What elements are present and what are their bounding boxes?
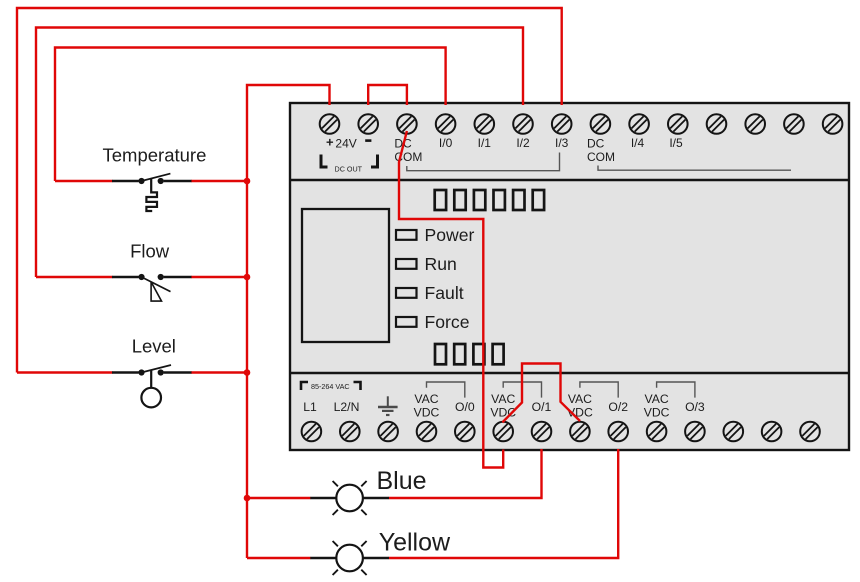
svg-text:I/3: I/3 <box>555 136 569 150</box>
Flow switch vane actuator <box>151 282 161 301</box>
Force LED <box>396 317 417 327</box>
top terminal strip divider <box>290 179 849 181</box>
wire: Level row left segment <box>17 371 113 373</box>
terminal screw O/0 <box>455 422 475 442</box>
label VAC VDC 1 <box>414 392 440 420</box>
svg-text:I/1: I/1 <box>478 136 492 150</box>
wire: Yellow lamp row left segment <box>247 557 311 559</box>
svg-text:Force: Force <box>425 312 470 332</box>
terminal screw spare input 3 <box>784 114 804 134</box>
output group bracket VAC-O/1 <box>503 382 541 398</box>
terminal screw VAC VDC 2 <box>493 422 513 442</box>
Temperature switch contact dots <box>138 178 163 184</box>
output group bracket VAC-O/0 <box>427 382 465 398</box>
label VAC VDC 4 <box>644 392 670 420</box>
svg-text:VAC: VAC <box>645 392 669 406</box>
svg-text:Power: Power <box>425 225 475 245</box>
wire: Level branch to input I/3 <box>17 8 562 373</box>
svg-text:I/0: I/0 <box>439 136 453 150</box>
svg-text:VDC: VDC <box>414 406 440 420</box>
svg-text:DC OUT: DC OUT <box>335 165 363 174</box>
Level switch leads <box>112 371 192 373</box>
wire: Temperature row right segment <box>191 180 247 182</box>
Temperature switch leads <box>112 180 192 182</box>
svg-text:Temperature: Temperature <box>103 145 207 166</box>
output status LED row (4 rectangles) <box>435 344 504 364</box>
terminal screw VAC VDC 4 <box>647 422 667 442</box>
svg-text:I/2: I/2 <box>516 136 530 150</box>
input group bracket I/0-I/3 <box>407 153 560 171</box>
Blue lamp leads <box>310 497 389 499</box>
Power LED <box>396 230 417 240</box>
wire: Blue lamp row to O/1 <box>389 449 542 498</box>
svg-text:VAC: VAC <box>414 392 438 406</box>
85-264 VAC bracket left <box>301 382 308 390</box>
Blue lamp <box>333 481 367 515</box>
LCD display window <box>302 209 389 342</box>
DC OUT bracket right <box>371 155 378 168</box>
terminal screw spare input 1 <box>707 114 727 134</box>
terminal screw DC COM 2 <box>591 114 611 134</box>
terminal screw VAC VDC 1 <box>417 422 437 442</box>
earth ground symbol <box>378 396 398 415</box>
junction node: bus at Blue lamp row <box>244 495 251 502</box>
input group bracket I/4-I/5 <box>598 166 791 171</box>
terminal screw spare output 2 <box>762 422 782 442</box>
svg-text:Flow: Flow <box>130 241 170 262</box>
output group bracket VAC-O/3 <box>657 382 695 398</box>
Level switch float <box>141 388 161 408</box>
wire: Flow row left segment <box>36 276 113 278</box>
svg-text:85-264 VAC: 85-264 VAC <box>311 382 350 391</box>
terminal screw VAC VDC 3 <box>570 422 590 442</box>
wire: minus terminal jumper to DC COM <box>368 85 407 105</box>
svg-text:Run: Run <box>425 254 457 274</box>
svg-text:VAC: VAC <box>568 392 592 406</box>
Level switch lever <box>141 365 171 373</box>
output group bracket VAC-O/2 <box>580 382 618 398</box>
svg-text:I/4: I/4 <box>631 136 645 150</box>
input status LED row (6 rectangles) <box>435 190 544 210</box>
label VAC VDC 3 <box>567 392 593 420</box>
label DC COM 1 <box>394 137 422 165</box>
terminal screw spare output 3 <box>800 422 820 442</box>
terminal screw DC COM 1 <box>397 114 417 134</box>
label DC COM 2 <box>587 137 615 165</box>
svg-text:Level: Level <box>132 336 176 357</box>
Flow switch contact dots <box>138 274 163 280</box>
junction node: bus at Temperature row <box>244 178 251 185</box>
Temperature switch thermal actuator <box>146 179 157 211</box>
svg-text:O/0: O/0 <box>455 400 475 414</box>
wire: vertical supply bus <box>246 181 248 558</box>
terminal screw I/5 <box>668 114 688 134</box>
terminal screw +24V <box>320 114 340 134</box>
85-264 VAC bracket right <box>354 382 361 390</box>
wire: DC COM return through module to VAC VDC <box>399 131 503 468</box>
label +24V <box>326 135 357 151</box>
Yellow lamp leads <box>310 557 389 559</box>
svg-text:24V: 24V <box>335 137 356 151</box>
Flow switch leads <box>112 276 192 278</box>
svg-text:Blue: Blue <box>377 467 427 495</box>
terminal screw I/2 <box>513 114 533 134</box>
svg-text:I/5: I/5 <box>669 136 683 150</box>
DC OUT bracket left <box>321 155 328 168</box>
terminal screw I/1 <box>475 114 495 134</box>
Level switch contact dots <box>138 369 163 375</box>
terminal screw earth ground <box>378 422 398 442</box>
terminal screw spare output 1 <box>724 422 744 442</box>
svg-text:DC: DC <box>587 137 605 151</box>
svg-text:COM: COM <box>587 150 615 164</box>
PLC module body <box>290 103 849 450</box>
wire: output commons jumper VAC VDC 2 to VAC VDC 3 <box>502 364 580 423</box>
wire: Flow branch to input I/2 <box>36 28 523 278</box>
Run LED <box>396 259 417 269</box>
Temperature switch lever <box>142 174 171 181</box>
svg-text:L2/N: L2/N <box>334 400 360 414</box>
wire: Flow row right segment <box>191 276 247 278</box>
bottom terminal screws: L1 <box>302 422 322 442</box>
Fault LED <box>396 288 417 298</box>
wire: Temperature branch to input I/0 <box>55 48 446 182</box>
svg-text:VDC: VDC <box>644 406 670 420</box>
terminal screw O/2 <box>608 422 628 442</box>
svg-text:+: + <box>326 135 334 150</box>
svg-text:O/3: O/3 <box>685 400 705 414</box>
terminal screw spare input 2 <box>745 114 765 134</box>
label VAC VDC 2 <box>490 392 516 420</box>
Flow switch lever <box>142 277 171 292</box>
terminal screw L2/N <box>340 422 360 442</box>
wire: Yellow lamp row to O/2 <box>389 449 618 558</box>
wire: +24V supply up-over-left to sensor bus <box>247 85 330 181</box>
terminal screw O/3 <box>685 422 705 442</box>
bottom terminal strip divider <box>290 372 849 374</box>
svg-text:Yellow: Yellow <box>379 529 451 557</box>
junction node: bus at Flow row <box>244 274 251 281</box>
junction node: bus at Level row <box>244 369 251 376</box>
terminal screw I/3 <box>552 114 572 134</box>
terminal screw minus <box>358 114 378 134</box>
label minus <box>365 139 371 142</box>
terminal screw I/0 <box>436 114 456 134</box>
wire: Blue lamp row left segment <box>247 497 311 499</box>
wire: Level row right segment <box>191 371 247 373</box>
terminal screw O/1 <box>532 422 552 442</box>
svg-text:Fault: Fault <box>425 283 464 303</box>
wire: Temperature row left segment <box>55 180 113 182</box>
svg-text:L1: L1 <box>303 400 317 414</box>
Level switch float actuator stem <box>150 370 152 388</box>
svg-text:VAC: VAC <box>491 392 515 406</box>
svg-text:O/2: O/2 <box>608 400 628 414</box>
svg-text:O/1: O/1 <box>532 400 552 414</box>
terminal screw spare input 4 <box>823 114 843 134</box>
terminal screw I/4 <box>629 114 649 134</box>
Yellow lamp <box>333 541 367 575</box>
